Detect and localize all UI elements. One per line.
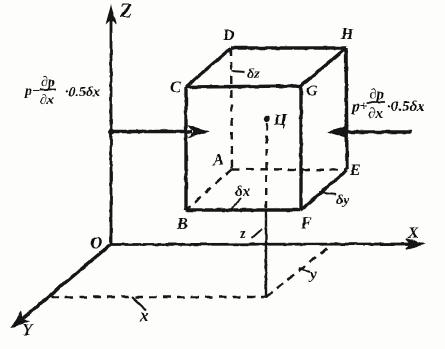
cube back right edge H-E [346, 48, 347, 170]
hidden edge A-B dashed [186, 169, 232, 210]
delta-x tick [231, 198, 241, 209]
svg-text:δy: δy [336, 193, 350, 208]
right pressure force arrow [328, 127, 412, 138]
svg-text:F: F [300, 215, 312, 232]
vertical line z from cube bottom to floor [265, 209, 267, 298]
svg-text:·0.5δx: ·0.5δx [387, 99, 425, 115]
axis X [110, 239, 423, 249]
floor dashed line x (from Y axis to point under center) [51, 296, 266, 298]
svg-text:X: X [407, 225, 419, 242]
delta-y tick [319, 192, 336, 194]
cube depth edge G-H [301, 48, 346, 86]
svg-text:C: C [170, 79, 181, 96]
dashed line from center down [266, 123, 267, 209]
svg-text:H: H [340, 26, 354, 43]
left pressure force arrow [108, 126, 208, 137]
svg-text:∂x: ∂x [368, 106, 383, 122]
svg-text:E: E [349, 162, 361, 179]
cube depth edge F-E [301, 170, 347, 210]
cube front face edge C-G [186, 86, 301, 87]
svg-text:y: y [308, 267, 317, 283]
cube front face edge C-B [184, 87, 187, 210]
svg-text:A: A [212, 152, 224, 169]
floor dashed diagonal y (to X axis) [266, 245, 331, 297]
cube depth edge C-D [186, 48, 231, 87]
svg-text:D: D [222, 27, 235, 44]
left pressure label p - dp/dx 0.5dx [24, 75, 100, 108]
svg-text:x: x [139, 306, 149, 325]
axis Z [107, 6, 116, 245]
center point dot [264, 116, 270, 122]
small y tick [299, 268, 310, 272]
svg-text:p−: p− [24, 84, 40, 99]
svg-text:p+: p+ [350, 99, 368, 115]
axis Y [12, 245, 110, 327]
svg-text:∂p: ∂p [369, 87, 384, 103]
hidden edge A-E dashed [232, 169, 347, 170]
svg-text:O: O [90, 233, 102, 252]
svg-text:G: G [306, 83, 318, 100]
hidden edge D-A dashed [231, 48, 232, 169]
svg-text:∂p: ∂p [41, 75, 55, 90]
small z tick [252, 229, 262, 238]
cube front face edge B-F [186, 208, 301, 211]
svg-text:z: z [239, 226, 246, 242]
svg-text:·0.5δx: ·0.5δx [65, 85, 100, 100]
cube top back edge D-H [231, 46, 346, 49]
svg-text:B: B [176, 216, 188, 233]
right pressure label p + dp/dx 0.5dx [350, 87, 425, 122]
cube front face edge G-F [299, 86, 302, 210]
svg-text:∂x: ∂x [40, 93, 54, 108]
svg-text:Z: Z [119, 0, 132, 22]
svg-text:δx: δx [235, 184, 251, 200]
svg-text:Y: Y [22, 320, 34, 339]
svg-text:δz: δz [247, 67, 260, 82]
small x tick [132, 297, 146, 310]
delta-z tick [232, 71, 245, 72]
svg-text:Ц: Ц [273, 112, 287, 129]
